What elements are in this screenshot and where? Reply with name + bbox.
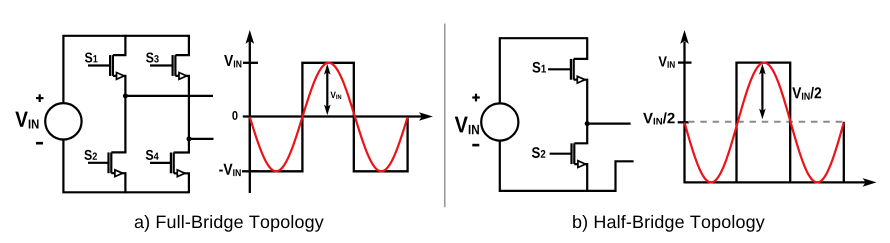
label 0 (left plot) xyxy=(232,111,237,120)
transistor S3 xyxy=(150,35,189,139)
wire: output from half-bridge midpoint xyxy=(587,122,630,124)
plus sign of source (right) xyxy=(472,94,480,102)
amplitude arrow (right plot) xyxy=(759,64,766,120)
voltage source circle (left) xyxy=(45,103,81,139)
junction node A (S1/S2 midpoint) xyxy=(123,93,128,98)
label S2 xyxy=(84,150,97,160)
left plot x-axis xyxy=(243,115,423,117)
tick VIN (right plot) xyxy=(678,61,692,63)
label S1 (half-bridge) xyxy=(532,62,546,73)
dashed line VIN/2 (right plot) xyxy=(688,121,847,123)
voltage source VIN label (left) xyxy=(15,112,38,129)
transistor S1 xyxy=(88,35,125,96)
tick VIN/2 (right plot) xyxy=(678,121,689,123)
wire: output B from node B xyxy=(189,138,214,140)
label S3 xyxy=(146,52,159,62)
transistor S4 xyxy=(150,139,189,193)
divider line xyxy=(444,24,446,208)
label S2 (half-bridge) xyxy=(532,147,545,158)
label VIN (right plot) xyxy=(658,56,674,67)
wire: source bottom riser + bottom rail (left) xyxy=(63,139,189,192)
minus sign of source (left) xyxy=(36,142,43,145)
right plot x-axis xyxy=(685,181,867,183)
label -VIN (left plot) xyxy=(219,164,240,176)
label VIN (left plot) xyxy=(224,55,241,67)
junction node (half-bridge midpoint) xyxy=(585,121,590,126)
right end vertical at VIN/2 (right plot) xyxy=(843,122,845,183)
label S1 xyxy=(85,52,98,62)
transistor S2 (half-bridge) xyxy=(550,124,588,192)
wire: source top riser + top rail (right) xyxy=(500,38,587,103)
sine wave (left plot) xyxy=(250,63,408,172)
voltage source VIN label (right) xyxy=(455,117,479,135)
voltage source circle (right) xyxy=(481,103,518,140)
plus sign of source (left) xyxy=(36,94,44,102)
label VIN/2 (right plot) xyxy=(643,112,675,124)
amplitude arrow (left plot) xyxy=(324,64,331,115)
caption a) Full-Bridge Topology xyxy=(135,215,324,232)
tick -VIN (left plot) xyxy=(242,170,258,172)
minus sign of source (right) xyxy=(472,144,479,147)
label S4 xyxy=(146,150,159,160)
label VIN/2 at arrow (right plot) xyxy=(792,87,821,100)
square pulse (right plot) xyxy=(737,63,791,183)
wire: output A from node A xyxy=(125,95,213,97)
wire: source top riser + top rail (left) xyxy=(63,36,188,104)
left plot y-axis xyxy=(249,41,251,193)
label VIN at arrow (left plot) xyxy=(330,92,341,100)
transistor S1 (half-bridge) xyxy=(548,37,587,123)
right plot y-axis xyxy=(683,42,685,184)
caption b) Half-Bridge Topology xyxy=(573,215,765,232)
wire: source bottom riser + bottom rail + lower output step (right) xyxy=(500,140,634,191)
square wave (left plot) xyxy=(250,63,408,172)
junction node B (S3/S4 midpoint) xyxy=(187,136,192,141)
sine wave (right plot) xyxy=(685,63,844,183)
tick VIN (left plot) xyxy=(243,62,258,64)
transistor S2 xyxy=(88,96,125,193)
